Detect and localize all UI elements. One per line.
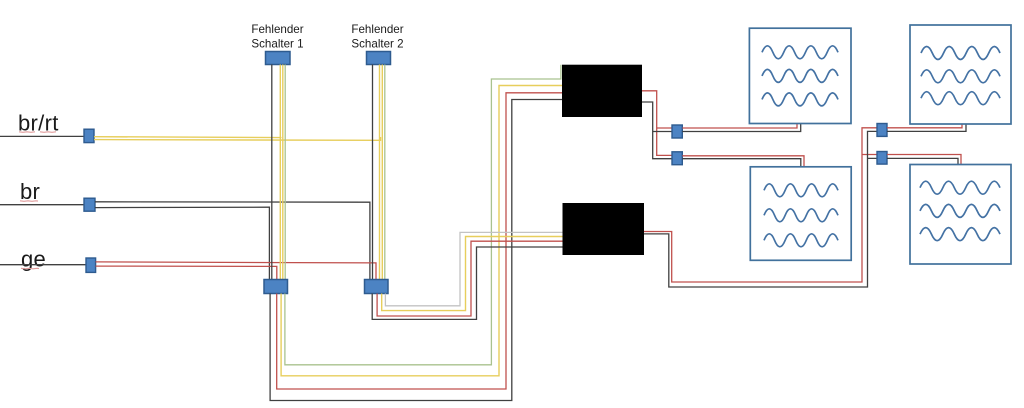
switch S1 (Fehlender Schalter 1)	[266, 52, 291, 65]
wire red connector D to heater W4	[887, 155, 961, 166]
wire black S1 down to C1	[271, 65, 273, 281]
connector C (right seat front)	[877, 124, 887, 137]
svg-text:Schalter 2: Schalter 2	[351, 38, 403, 51]
wire red C1 to module B1	[277, 93, 563, 389]
wire br black to C2 column	[95, 202, 370, 280]
heater element box W1 (front left)	[749, 28, 851, 123]
wire black connector C to heater W2	[887, 124, 966, 131]
connector D (right seat rear)	[877, 152, 887, 165]
connector A (left seat front)	[672, 125, 682, 138]
wire black connector D to heater W4	[887, 158, 958, 165]
wire red C2 to module B2	[377, 241, 563, 316]
wire br/rt feed from left edge	[0, 135, 84, 137]
wire black S2 down to C2	[372, 65, 374, 281]
wire red B2 to connectors C and D (bottom run)	[644, 128, 877, 282]
svg-text:Schalter 1: Schalter 1	[251, 38, 303, 51]
wire black B2 to connectors C and D (bottom run)	[644, 131, 877, 287]
wire br black to C1 column	[95, 207, 269, 280]
wire ge red to C2 column	[96, 262, 376, 280]
heater element box W2 (front right)	[910, 25, 1011, 124]
wire black B1 to connectors A and B	[642, 102, 672, 159]
module B1 (black box top)	[562, 65, 642, 117]
wire black connector A to heater W1	[682, 124, 800, 132]
wire black connector B to heater W3	[682, 159, 801, 168]
spellcheck underline under br	[20, 200, 38, 203]
svg-text:br: br	[20, 179, 40, 204]
wire black C1 to module B1 (deep U)	[270, 100, 562, 401]
wire red connector B to heater W3	[682, 156, 804, 168]
wire yellow S2 down to C2 (pair)	[379, 65, 381, 281]
svg-text:ge: ge	[21, 247, 46, 272]
svg-text:Fehlender: Fehlender	[351, 23, 403, 36]
wire black C2 to module B2	[372, 247, 563, 319]
wire red B1 to connectors A and B	[642, 91, 672, 156]
wire ge red to C1 column	[96, 266, 277, 280]
module B2 (black box bottom)	[563, 203, 645, 255]
svg-text:Fehlender: Fehlender	[251, 23, 303, 36]
wire yellow C1 to module B1	[281, 86, 562, 376]
switch S2 (Fehlender Schalter 2)	[367, 52, 391, 65]
wire green S1 down to C1	[284, 65, 286, 281]
wire red connector A to heater W1	[682, 124, 797, 129]
connector K2 (br tap)	[84, 198, 95, 211]
connector K3 (ge tap)	[86, 258, 96, 272]
wire green S2 down to C2	[384, 65, 386, 281]
connector K1 (br/rt tap)	[84, 129, 94, 142]
wire white/gray C2 to module B2	[385, 232, 563, 305]
wire yellow br/rt to Schalter 2 column	[94, 137, 381, 140]
connector C2 (below switch 2)	[365, 280, 389, 294]
wire yellow S1 down to C1 (pair)	[279, 65, 281, 281]
connector C1 (below switch 1)	[264, 280, 288, 294]
wire br feed from left edge	[0, 204, 84, 206]
wire ge feed from left edge	[0, 264, 86, 266]
wire green C1 to module B1 (enters top-left corner)	[285, 65, 561, 365]
wire yellow C2 to module B2	[382, 237, 563, 311]
heater element box W4 (rear right)	[910, 165, 1011, 265]
spellcheck underline under br/rt	[19, 131, 56, 134]
wire yellow br/rt to Schalter 1 column	[94, 136, 282, 139]
wire red connector C to heater W2	[887, 124, 962, 128]
connector B (left seat rear)	[672, 152, 682, 165]
heater element box W3 (rear left)	[750, 167, 851, 260]
spellcheck underline under ge	[21, 267, 39, 270]
